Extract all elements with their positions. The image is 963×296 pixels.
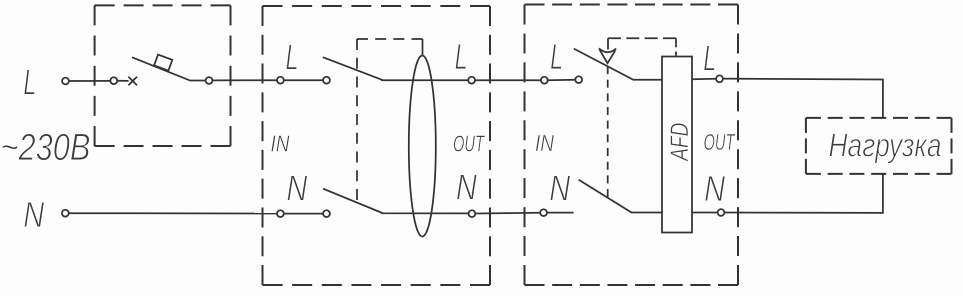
terminal RCD N input [277,210,284,217]
wire N: AFD block output to terminal [692,212,718,214]
terminal N source [62,210,69,217]
terminal RCD N output [469,210,476,217]
wire L: AFDD input terminal to contact [548,79,576,81]
AFD block rectangle [662,57,692,233]
wire L: source to breaker input [69,80,111,82]
wire N: source to RCD input [69,212,278,214]
AFDD trip linkage (dashed vertical) [607,66,609,197]
breaker fixed-contact X mark [128,77,137,86]
svg-text:OUT: OUT [453,130,485,156]
svg-text:OUT: OUT [704,129,736,155]
wire N: RCD output to AFDD input [475,212,540,215]
svg-text:N: N [549,167,571,208]
svg-text:~230В: ~230В [1,127,91,169]
terminal RCD L input [277,77,284,84]
svg-text:N: N [23,194,45,235]
terminal breaker output [206,77,213,84]
box: circuit breaker enclosure (dashed) [95,5,231,146]
svg-text:L: L [286,36,299,77]
terminal breaker input [110,77,117,84]
svg-text:N: N [456,166,478,207]
svg-text:L: L [455,36,468,77]
terminal L source [62,78,69,85]
AFDD N switch lever [579,180,662,213]
svg-text:N: N [704,168,726,209]
contact AFDD L fixed [575,76,582,83]
AFDD L switch lever [574,49,662,80]
terminal RCD L output [468,77,475,84]
label L source [1,36,942,235]
wire L: breaker output to RCD input [212,79,277,81]
RCD L switch lever [323,57,469,80]
contact RCD L fixed [323,77,330,84]
box: load (dashed) [806,118,952,174]
terminal AFDD L input [541,77,548,84]
svg-text:L: L [23,61,36,102]
svg-text:IN: IN [271,130,290,156]
wire L: RCD input terminal to contact [284,79,324,81]
AFDD trip release symbol (arc + arrow) [607,38,609,49]
contact RCD N fixed [323,210,330,217]
svg-text:AFD: AFD [666,123,694,163]
svg-text:Нагрузка: Нагрузка [829,127,942,164]
breaker thermal release (square on lever) [154,55,172,71]
wire L: AFD block output to terminal [692,78,716,81]
wire N: RCD input terminal to contact [284,213,324,215]
svg-text:L: L [703,37,716,78]
box: AFDD enclosure (dashed) [525,5,739,286]
wire L: AFDD output to load [723,79,883,118]
svg-text:N: N [286,168,308,209]
terminal AFDD N input [540,209,547,216]
terminal AFDD N output [718,209,725,216]
wire N: AFDD output to load [724,174,883,213]
box: RCD enclosure (dashed) [263,6,491,285]
wire L: RCD output to AFDD input [475,79,541,81]
RCD differential transformer core (ellipse) [409,56,436,237]
RCD trip mechanism box (dashed) with link to core [356,39,358,200]
RCD N switch lever [323,189,469,214]
svg-text:L: L [550,36,563,77]
AFDD control link: release to AFD block (dashed) [608,37,676,39]
svg-text:IN: IN [535,130,554,156]
breaker switch lever [132,57,206,80]
terminal AFDD L output [716,75,723,82]
wire N: AFDD input terminal to contact [547,212,574,214]
wire L: breaker contact to X [117,80,129,82]
